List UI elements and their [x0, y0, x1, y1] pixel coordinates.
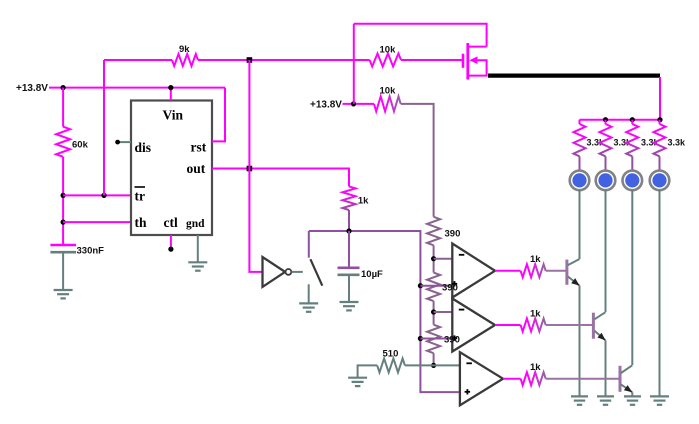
switch bottom contact [308, 284, 310, 303]
wire 3.3k top lead 3 [631, 120, 633, 124]
ground col2 [597, 395, 614, 397]
resistor R 390 #2 [427, 273, 440, 302]
wire switch top [308, 231, 310, 258]
ground at 510 [348, 377, 367, 379]
wire Vin pin [170, 88, 172, 101]
svg-text:3.3k: 3.3k [641, 138, 660, 148]
wire purple rail [309, 231, 460, 392]
svg-text:+13.8V: +13.8V [310, 100, 342, 111]
wire chain c [433, 353, 435, 365]
resistor R 510 [377, 358, 405, 372]
wire 60k bottom to cap [62, 157, 64, 245]
wire comp2 output [495, 324, 521, 326]
svg-text:gnd: gnd [186, 218, 205, 230]
ground col1 [571, 395, 588, 397]
LED D3 [623, 171, 643, 191]
junction rail-1k-cap [346, 228, 351, 233]
wire LED2 to collector [605, 190, 607, 312]
resistor R 10k (gate) [370, 54, 401, 67]
resistor 60k [56, 127, 70, 157]
op-amp comparator U3A [452, 244, 495, 298]
resistor R 1k #3 [521, 372, 546, 385]
wire LED4 to ground [659, 190, 661, 396]
resistor R 3.3k #4 [654, 124, 666, 156]
transistor Q3 NPN [592, 313, 595, 339]
svg-text:dis: dis [135, 140, 152, 155]
wire out pin [212, 169, 349, 187]
wire chain b [433, 301, 435, 325]
wire 510 ground lead [358, 365, 378, 377]
wire +13.8V stub [343, 103, 375, 105]
svg-text:1k: 1k [530, 362, 541, 373]
capacitor C 10uF [338, 266, 360, 269]
resistor R 1k #2 [521, 319, 546, 332]
ground col3 [624, 395, 641, 397]
op-amp comparator U3B [452, 299, 495, 352]
wire comp3 output [503, 378, 521, 380]
wire LED top lead 1 [579, 156, 581, 170]
resistor R 390 #3 [427, 325, 440, 354]
wire cap drop [348, 231, 350, 268]
wire chain a [433, 245, 435, 272]
transistor Q4 NPN [619, 366, 622, 392]
wire LED top lead 2 [605, 156, 607, 170]
wire 60k top lead [62, 88, 64, 127]
capacitor C 330nF [50, 244, 76, 247]
svg-text:10k: 10k [380, 45, 397, 56]
svg-text:390: 390 [445, 229, 461, 240]
svg-text:tr: tr [135, 189, 146, 204]
svg-text:9k: 9k [179, 44, 190, 55]
terminal ctl dot [168, 247, 173, 252]
svg-text:3.3k: 3.3k [668, 138, 687, 148]
wire emitter down Q3 [605, 340, 607, 396]
resistor R 10k (divider) [374, 96, 401, 111]
ground under 10uF [340, 301, 359, 303]
junction square out-top [247, 57, 253, 63]
junction th-left [61, 220, 66, 225]
LED D4 [650, 171, 670, 191]
wire thick black output [488, 73, 660, 77]
wire 1k to base 3 [546, 378, 620, 380]
wire emitter down Q2 [579, 286, 581, 397]
svg-text:390: 390 [442, 283, 458, 294]
resistor R 3.3k #3 [626, 124, 638, 156]
svg-text:390: 390 [444, 335, 460, 346]
svg-text:510: 510 [383, 349, 399, 360]
wire LED3 to collector [631, 190, 633, 365]
stub dis pin [118, 141, 131, 143]
wire rst pin [212, 88, 225, 142]
svg-text:10µF: 10µF [361, 269, 383, 280]
svg-text:ctl: ctl [164, 215, 178, 230]
wire cap to ground [348, 275, 350, 302]
resistor R 1k #1 [521, 264, 546, 277]
svg-text:10k: 10k [380, 86, 397, 97]
transistor Q1 MOSFET [462, 54, 465, 68]
svg-text:+13.8V: +13.8V [16, 83, 48, 94]
ground under 330nF [54, 289, 73, 291]
junction +13.8V right [351, 101, 356, 106]
junction feed 2 [603, 117, 608, 122]
terminal dis dot [115, 140, 120, 145]
svg-text:60k: 60k [72, 140, 89, 151]
junction square out [247, 166, 253, 172]
wire 1k to base 1 [546, 270, 567, 272]
wire LED top lead 4 [659, 156, 661, 170]
svg-text:1k: 1k [530, 308, 541, 319]
resistor R 9k [172, 54, 198, 66]
wire LED feed [580, 77, 661, 120]
svg-text:out: out [187, 161, 206, 176]
wire 1k to rail [348, 210, 350, 231]
wire 9k to gate-10k [198, 59, 370, 61]
LED D2 [596, 171, 616, 191]
wire comp1 plus [420, 285, 452, 287]
ground under 555 [188, 261, 207, 263]
junction chain comp1- [431, 256, 436, 261]
wire 10k to gate [401, 59, 463, 61]
wire +13.8V rail [49, 87, 225, 89]
LED D1 [570, 171, 590, 191]
stub inverter output [292, 271, 303, 273]
ground col4 [650, 395, 669, 397]
switch blade [310, 259, 322, 286]
wire feedback vertical [103, 60, 105, 195]
svg-text:330nF: 330nF [77, 246, 105, 257]
wire LED top lead 3 [631, 156, 633, 170]
resistor R 390 #1 [427, 217, 440, 246]
inverter U2 [263, 257, 286, 287]
svg-text:1k: 1k [530, 254, 541, 265]
junction chain comp3- [431, 363, 436, 368]
wire comp1 output [495, 270, 521, 272]
wire comp1 minus [434, 258, 453, 260]
svg-text:rst: rst [191, 140, 207, 155]
junction plus2 [418, 336, 423, 341]
junction feed 3 [630, 117, 635, 122]
wire LED1 to collector [579, 190, 581, 259]
junction tr-vertical [101, 193, 106, 198]
wire 3.3k top lead 4 [659, 120, 661, 124]
wire cap to ground [62, 252, 64, 290]
wire 10k to chain [401, 104, 434, 217]
op-amp comparator U3C [460, 352, 503, 405]
resistor R 3.3k #1 [574, 124, 586, 156]
wire 3.3k top lead 2 [605, 120, 607, 124]
wire comp2 plus [420, 338, 452, 340]
op-amp/timer U1 555 box [131, 101, 212, 236]
stub ctl pin [170, 235, 172, 247]
emitter arrow Q3 [597, 333, 605, 341]
wire top feedback row [104, 59, 172, 61]
wire top drain loop [354, 24, 487, 47]
wire 3.3k top lead 1 [579, 120, 581, 124]
resistor R 3.3k #2 [600, 124, 612, 156]
resistor R 1k (out) [343, 186, 356, 210]
svg-text:Vin: Vin [163, 108, 184, 123]
junction chain comp2- [431, 309, 436, 314]
transistor Q2 NPN [565, 260, 568, 285]
svg-text:th: th [135, 215, 147, 230]
wire supply vertical [353, 24, 355, 104]
wire tr horizontal [63, 194, 131, 196]
wire 1k to base 2 [546, 324, 594, 326]
junction feed 4 [657, 117, 662, 122]
emitter arrow Q4 [624, 385, 632, 392]
svg-text:1k: 1k [358, 196, 369, 207]
wire comp2 minus [434, 311, 453, 313]
wire th horizontal [63, 221, 131, 223]
junction plus1 [418, 283, 423, 288]
wire out to inverter [249, 60, 262, 272]
junction Vin [168, 85, 173, 90]
wire gnd pin [197, 235, 199, 262]
junction at 60k top [61, 85, 66, 90]
emitter arrow Q2 [571, 278, 579, 286]
wire emitter down Q4 [631, 392, 633, 396]
junction tr-left [61, 193, 66, 198]
wire 510 to comp3 minus [405, 364, 460, 366]
ground under switch [299, 302, 318, 304]
